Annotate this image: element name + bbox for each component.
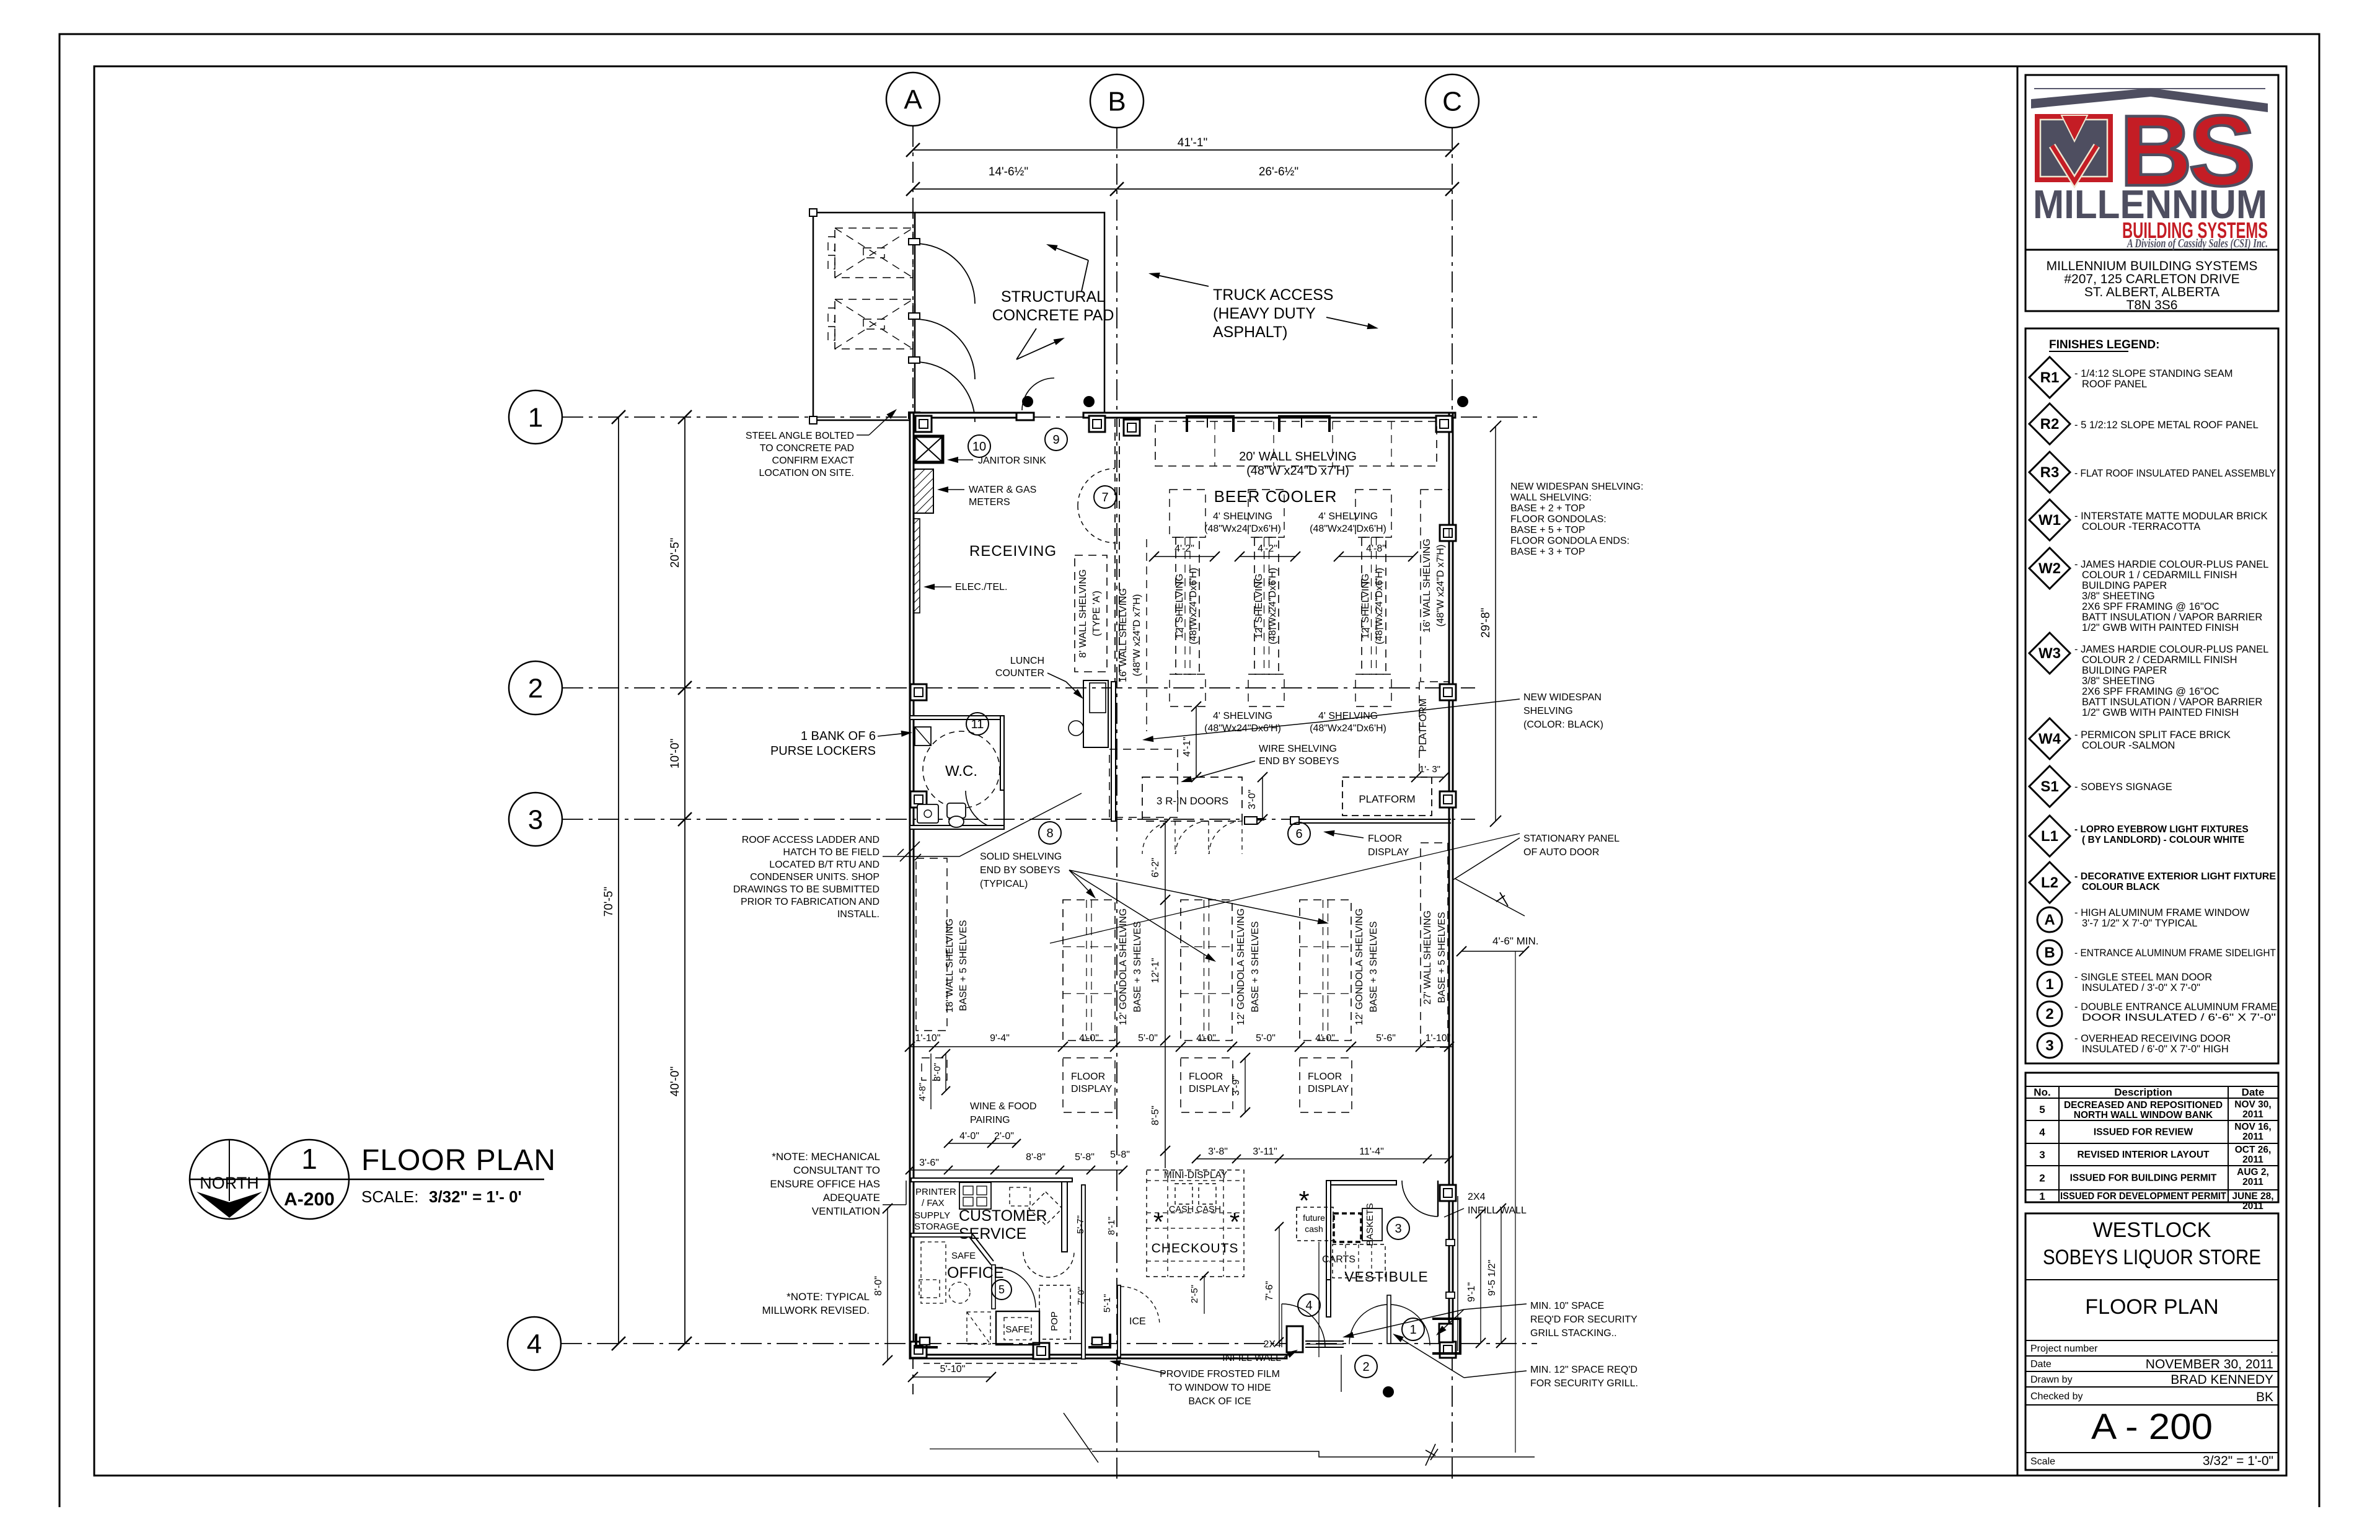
svg-text:Scale: Scale (2030, 1456, 2055, 1467)
svg-text:HATCH TO BE FIELD: HATCH TO BE FIELD (783, 847, 879, 858)
svg-text:3: 3 (1395, 1222, 1401, 1236)
svg-text:10'-0": 10'-0" (669, 739, 682, 768)
wc south wall (910, 825, 1004, 829)
svg-text:7'-6": 7'-6" (1264, 1281, 1275, 1301)
south wall window sill dashed (923, 1363, 1078, 1364)
2x4 bottom leader (1284, 1355, 1288, 1357)
legend symbol A (2037, 907, 2062, 932)
svg-text:NOVEMBER 30, 2011: NOVEMBER 30, 2011 (2146, 1357, 2273, 1371)
platform rectangle (1342, 777, 1432, 816)
grid bubble C (1426, 74, 1479, 128)
svg-text:16' WALL SHELVING: 16' WALL SHELVING (1118, 588, 1129, 682)
legend symbol W3 (2029, 633, 2070, 674)
legend symbol 1 (2037, 972, 2062, 997)
grid line 2 (562, 687, 1475, 689)
svg-text:- LOPRO EYEBROW LIGHT FIXTURES: - LOPRO EYEBROW LIGHT FIXTURES (2074, 824, 2249, 835)
legend symbol R1 (2029, 357, 2070, 398)
svg-text:2: 2 (2039, 1173, 2045, 1184)
legend symbol 3 (2037, 1033, 2062, 1058)
svg-text:Drawn by: Drawn by (2030, 1375, 2073, 1385)
svg-text:20' WALL SHELVING: 20' WALL SHELVING (1239, 450, 1357, 464)
grid bubble B (1090, 74, 1144, 128)
svg-text:TO CONCRETE PAD: TO CONCRETE PAD (760, 443, 854, 454)
svg-text:NOV 16,: NOV 16, (2234, 1122, 2271, 1132)
svg-text:Date: Date (2030, 1359, 2052, 1370)
svg-text:Project number: Project number (2030, 1344, 2098, 1354)
svg-text:INSTALL.: INSTALL. (837, 909, 879, 920)
svg-text:No.: No. (2034, 1086, 2050, 1098)
title block logo box (2025, 75, 2278, 311)
svg-text:PLATFORM: PLATFORM (1359, 793, 1415, 805)
svg-text:2'-5": 2'-5" (1189, 1285, 1200, 1303)
svg-text:ELEC./TEL.: ELEC./TEL. (955, 582, 1007, 592)
svg-text:END BY SOBEYS: END BY SOBEYS (980, 865, 1060, 876)
svg-text:OCT 26,: OCT 26, (2235, 1145, 2272, 1155)
structural concrete pad outline (915, 213, 1104, 415)
svg-text:6: 6 (1295, 827, 1302, 841)
legend symbol W2 (2029, 548, 2070, 589)
cooler gondola 2 (dashed) (1254, 537, 1279, 674)
svg-text:20'-5": 20'-5" (669, 538, 682, 568)
svg-text:*: * (1230, 1207, 1240, 1236)
grid bubble 4 (508, 1317, 561, 1370)
east wall window jamb ticks (1446, 1239, 1455, 1246)
svg-text:FLOOR GONDOLA ENDS:: FLOOR GONDOLA ENDS: (1510, 536, 1629, 547)
svg-text:NEW WIDESPAN: NEW WIDESPAN (1523, 692, 1602, 703)
project title box (2025, 1213, 2278, 1470)
svg-text:8'-0": 8'-0" (873, 1276, 884, 1296)
svg-text:7: 7 (1101, 491, 1108, 504)
logo/address divider (2025, 249, 2278, 251)
svg-text:ROOF PANEL: ROOF PANEL (2082, 379, 2147, 390)
transformer enclosure outline (813, 213, 915, 420)
ice door dashed swing (1121, 1287, 1160, 1326)
floor display leader upper right (1334, 834, 1364, 838)
svg-text:INSULATED / 6'-0" X 7'-0" HIGH: INSULATED / 6'-0" X 7'-0" HIGH (2082, 1044, 2229, 1055)
purse lockers (915, 727, 931, 746)
svg-text:Description: Description (2114, 1086, 2172, 1098)
section cut diagonal (1064, 1413, 1098, 1463)
svg-text:4'-0": 4'-0" (959, 1131, 979, 1142)
pop/ice partition (1082, 1185, 1085, 1359)
svg-text:70'-5": 70'-5" (602, 887, 615, 917)
svg-text:#207, 125 CARLETON DRIVE: #207, 125 CARLETON DRIVE (2064, 272, 2239, 286)
svg-text:2011: 2011 (2242, 1109, 2263, 1120)
dimension 29'-8" (1495, 426, 1496, 821)
vestibule entrance door leaf (1387, 1295, 1391, 1344)
svg-text:NORTH WALL WINDOW BANK: NORTH WALL WINDOW BANK (2074, 1110, 2213, 1120)
svg-text:- ENTRANCE ALUMINUM FRAME SIDE: - ENTRANCE ALUMINUM FRAME SIDELIGHT (2074, 948, 2276, 959)
svg-text:3/32" = 1'- 0': 3/32" = 1'- 0' (429, 1187, 522, 1206)
numbered circle 6 (1288, 822, 1310, 845)
svg-text:T8N 3S6: T8N 3S6 (2127, 298, 2178, 312)
numbered circle 9 (1045, 428, 1067, 451)
cooler south wall (1245, 818, 1264, 821)
svg-text:4'-1": 4'-1" (1182, 737, 1192, 757)
svg-text:2: 2 (2045, 1006, 2053, 1023)
svg-text:SOBEYS LIQUOR STORE: SOBEYS LIQUOR STORE (2043, 1246, 2261, 1269)
svg-text:SCALE:: SCALE: (361, 1187, 419, 1206)
janitor sink (914, 436, 943, 462)
svg-text:(48"Wx24"Dx6'H): (48"Wx24"Dx6'H) (1204, 524, 1281, 534)
svg-text:PROVIDE FROSTED FILM: PROVIDE FROSTED FILM (1160, 1369, 1280, 1379)
svg-text:(48"Wx24"Dx6'H): (48"Wx24"Dx6'H) (1267, 568, 1278, 645)
svg-text:BASE + 3 SHELVES: BASE + 3 SHELVES (1368, 922, 1379, 1013)
svg-text:BK: BK (2256, 1390, 2273, 1404)
svg-text:END BY SOBEYS: END BY SOBEYS (1259, 756, 1339, 767)
18ft wall shelving dashed band (916, 858, 947, 1031)
svg-text:3/32" = 1'-0": 3/32" = 1'-0" (2203, 1454, 2273, 1468)
vestibule north wall (1331, 1181, 1396, 1185)
svg-text:12'-1": 12'-1" (1150, 958, 1161, 983)
svg-text:INFILL WALL: INFILL WALL (1222, 1353, 1281, 1363)
svg-text:CONSULTANT TO: CONSULTANT TO (793, 1164, 880, 1176)
svg-text:3: 3 (2045, 1037, 2053, 1054)
svg-text:FINISHES LEGEND:: FINISHES LEGEND: (2049, 338, 2159, 351)
retail dimension string line (910, 1046, 1453, 1047)
pad door jamb blocks (909, 239, 920, 245)
svg-text:SOLID SHELVING: SOLID SHELVING (980, 851, 1062, 862)
cooler double door swing lower (dashed) (1078, 506, 1115, 543)
svg-text:2011: 2011 (2242, 1155, 2263, 1165)
cooler gondola 3 end shelf bottom (1355, 674, 1391, 706)
svg-text:FLOOR: FLOOR (1308, 1071, 1342, 1082)
svg-text:5: 5 (998, 1283, 1005, 1296)
svg-text:WIRE SHELVING: WIRE SHELVING (1259, 744, 1337, 754)
revision row 1 (2025, 1202, 2278, 1203)
door 1 corner jamb bracket (1432, 1319, 1460, 1353)
svg-text:DECREASED AND REPOSITIONED: DECREASED AND REPOSITIONED (2064, 1100, 2223, 1111)
svg-text:4: 4 (527, 1329, 542, 1359)
svg-text:DOOR INSULATED / 6'-6" X: DOOR INSULATED / 6'-6" X 7'-0" (2082, 1012, 2276, 1023)
cooler gondola 2 end shelf top (1248, 490, 1284, 537)
column grid B north (1124, 420, 1140, 436)
cooler double door swing upper (dashed) (1078, 469, 1115, 506)
svg-text:- JAMES HARDIE COLOUR-PLUS PAN: - JAMES HARDIE COLOUR-PLUS PANEL (2074, 644, 2268, 655)
svg-text:29'-8": 29'-8" (1479, 608, 1492, 638)
pad leader arrow lower (1016, 328, 1036, 359)
truck access leader upper (1160, 276, 1209, 286)
office chair dashed (949, 1282, 970, 1303)
svg-text:8'-5": 8'-5" (1150, 1106, 1161, 1125)
svg-text:3/8" SHEETING: 3/8" SHEETING (2082, 675, 2155, 687)
svg-text:WALL SHELVING:: WALL SHELVING: (1510, 493, 1592, 503)
legend symbol S1 (2029, 766, 2070, 807)
svg-text:NOV 30,: NOV 30, (2234, 1099, 2271, 1110)
long leader diagonal across store (1050, 834, 1520, 943)
svg-text:- INTERSTATE MATTE MODULAR BRI: - INTERSTATE MATTE MODULAR BRICK (2074, 511, 2268, 522)
svg-text:W1: W1 (2038, 512, 2061, 529)
north wall window bank bracket 1 (1187, 416, 1233, 432)
revision table header row (2025, 1086, 2278, 1087)
svg-text:1/2" GWB WITH PAINTED FINISH: 1/2" GWB WITH PAINTED FINISH (2082, 622, 2239, 633)
dim line office upper (948, 1143, 1016, 1144)
elec/tel panel (hatched strip) (914, 519, 920, 613)
south wall window jamb west (916, 1334, 938, 1347)
svg-text:5'-0": 5'-0" (1138, 1033, 1158, 1044)
svg-text:4'-2": 4'-2" (1258, 543, 1277, 554)
svg-text:3: 3 (2039, 1149, 2045, 1161)
customer service counter top (911, 1178, 1072, 1182)
svg-text:CASH: CASH (1196, 1205, 1221, 1215)
counter dashed equipment (1010, 1187, 1030, 1206)
column east wall at grid 2 (1440, 684, 1456, 700)
svg-text:12' GONDOLA SHELVING: 12' GONDOLA SHELVING (1236, 909, 1246, 1026)
grid line 1 (562, 416, 1537, 418)
revision table box (2025, 1073, 2278, 1202)
svg-text:9'-4": 9'-4" (990, 1033, 1010, 1044)
svg-text:11'-4": 11'-4" (1359, 1146, 1384, 1157)
svg-text:2X4: 2X4 (1264, 1339, 1282, 1350)
dimension 8'-0" vertical (887, 1208, 888, 1360)
svg-text:FLOOR: FLOOR (1071, 1071, 1105, 1082)
svg-text:BASKETS: BASKETS (1365, 1203, 1375, 1246)
finishes legend box (2025, 328, 2278, 1063)
column east wall vestibule top (1440, 1185, 1456, 1201)
svg-text:SAFE: SAFE (951, 1251, 976, 1261)
vestibule door 3 swing (1402, 1181, 1438, 1217)
svg-text:ROOF ACCESS LADDER AND: ROOF ACCESS LADDER AND (742, 835, 879, 845)
svg-text:(HEAVY DUTY: (HEAVY DUTY (1213, 305, 1316, 322)
dimension line A-B-C segments (913, 188, 1452, 190)
legend symbol R3 (2029, 452, 2070, 493)
sidewalk line with break marks (1092, 1451, 1535, 1457)
legend symbol B (2037, 940, 2062, 965)
svg-text:STORAGE: STORAGE (914, 1221, 959, 1232)
svg-text:FLOOR: FLOOR (1189, 1071, 1223, 1082)
svg-text:5'-6": 5'-6" (1376, 1033, 1396, 1044)
svg-text:2011: 2011 (2242, 1201, 2263, 1212)
svg-text:CONCRETE PAD: CONCRETE PAD (992, 307, 1114, 324)
lunch counter (1083, 680, 1108, 747)
roof access leader (883, 793, 1082, 856)
svg-text:SHELVING: SHELVING (1523, 706, 1573, 716)
svg-text:MILLENNIUM BUILDING SYSTEMS: MILLENNIUM BUILDING SYSTEMS (2047, 259, 2258, 273)
svg-text:DISPLAY: DISPLAY (1308, 1084, 1349, 1094)
svg-text:(48"W x24"D x7'H): (48"W x24"D x7'H) (1435, 545, 1446, 627)
svg-text:1 BANK OF 6: 1 BANK OF 6 (801, 729, 876, 743)
svg-text:COLOUR 1 / CEDARMILL FINISH: COLOUR 1 / CEDARMILL FINISH (2082, 570, 2237, 581)
grid line A (912, 126, 914, 1394)
numbered circle 5 (992, 1280, 1011, 1300)
svg-text:COLOUR 2 / CEDARMILL FINISH: COLOUR 2 / CEDARMILL FINISH (2082, 654, 2237, 666)
svg-text:LOCATION ON SITE.: LOCATION ON SITE. (759, 468, 855, 478)
svg-text:W3: W3 (2038, 645, 2061, 662)
svg-text:L1: L1 (2041, 828, 2058, 845)
svg-text:R1: R1 (2040, 369, 2060, 386)
svg-text:1: 1 (2045, 976, 2053, 993)
east wall break diagonal (1455, 879, 1525, 916)
stationary panel leader (1453, 838, 1520, 880)
svg-text:9: 9 (1052, 433, 1059, 447)
svg-text:DISPLAY: DISPLAY (1368, 847, 1409, 858)
svg-text:12' GONDOLA SHELVING: 12' GONDOLA SHELVING (1118, 909, 1129, 1026)
svg-text:- DOUBLE ENTRANCE ALUMINUM FRA: - DOUBLE ENTRANCE ALUMINUM FRAME (2074, 1001, 2277, 1013)
solid shelving leader 3 (1069, 870, 1318, 921)
svg-text:FLOOR GONDOLAS:: FLOOR GONDOLAS: (1510, 514, 1606, 525)
min12 leader (1464, 1371, 1527, 1378)
dimension line rows 1-4 segments (684, 417, 685, 1344)
solid shelving leader 1 (1069, 870, 1088, 891)
svg-text:1'-10": 1'-10" (915, 1033, 941, 1044)
retail gondola 1 (dashed) (1063, 900, 1115, 1041)
vestibule door 4 swing (1282, 1304, 1325, 1347)
svg-text:ICE: ICE (1129, 1316, 1146, 1327)
svg-text:C: C (1442, 86, 1462, 117)
svg-text:1: 1 (2039, 1190, 2045, 1202)
svg-text:OF AUTO DOOR: OF AUTO DOOR (1523, 847, 1599, 858)
cooler gondola 1 end shelf bottom (1170, 674, 1205, 706)
svg-text:A - 200: A - 200 (2091, 1407, 2213, 1447)
svg-text:12' SHELVING: 12' SHELVING (1360, 573, 1371, 638)
svg-text:3'-7 1/2" X 7'-0" TYPICAL: 3'-7 1/2" X 7'-0" TYPICAL (2082, 918, 2197, 929)
20ft wall shelving dashed band (1155, 421, 1437, 466)
svg-text:FLOOR PLAN: FLOOR PLAN (2085, 1295, 2218, 1319)
column south-east corner (1440, 1342, 1456, 1358)
dimension 5'-10" (913, 1376, 991, 1378)
north wall centre segment (1083, 413, 1455, 418)
pad door 1 swing (915, 244, 975, 304)
counter gate dashed semicircle (1023, 1252, 1074, 1277)
svg-text:LOCATED B/T RTU AND: LOCATED B/T RTU AND (769, 860, 879, 870)
svg-text:6'-2": 6'-2" (1150, 858, 1161, 878)
svg-text:3'-8": 3'-8" (1208, 1146, 1228, 1157)
svg-text:4'-0": 4'-0" (1315, 1033, 1335, 1044)
svg-text:2011: 2011 (2242, 1177, 2263, 1187)
receiving/retail wall lower (1111, 682, 1116, 821)
counter chair diamond (1029, 1192, 1062, 1225)
numbered circle 11 (966, 713, 989, 735)
svg-text:R2: R2 (2040, 416, 2060, 433)
svg-text:S1: S1 (2040, 778, 2058, 795)
legend symbol L1 (2029, 816, 2070, 856)
svg-text:14'-6½": 14'-6½" (989, 165, 1028, 178)
north wall bollard 2 (1083, 396, 1095, 407)
office door leaf (992, 1265, 995, 1309)
svg-text:W.C.: W.C. (945, 763, 977, 780)
svg-text:PAIRING: PAIRING (970, 1115, 1010, 1125)
svg-text:PURSE LOCKERS: PURSE LOCKERS (770, 744, 876, 758)
svg-text:3'-6": 3'-6" (919, 1158, 939, 1168)
dimension 3'-9" (1245, 1058, 1246, 1112)
pad door 3 swing (915, 362, 975, 422)
checkout dim line (1196, 1158, 1449, 1159)
checkout lanes outer dashed box (1147, 1170, 1244, 1277)
svg-text:4: 4 (2039, 1127, 2045, 1138)
svg-text:27' WALL SHELVING: 27' WALL SHELVING (1422, 910, 1433, 1005)
svg-text:Checked by: Checked by (2030, 1391, 2083, 1402)
svg-text:(48"Wx24"Dx6'H): (48"Wx24"Dx6'H) (1374, 568, 1385, 645)
counter register equipment (959, 1182, 991, 1209)
column east wall upper (1440, 525, 1456, 541)
revision row 4 (2025, 1143, 2278, 1144)
r-in door swing 2 (dashed) (1176, 821, 1209, 854)
wine & food end shelf (dashed) (922, 1058, 947, 1080)
svg-text:4'-2": 4'-2" (1175, 543, 1194, 554)
dimension 4'-8" cooler right (1339, 556, 1413, 557)
north wall door 9 swing (1022, 378, 1054, 410)
svg-text:3'-0": 3'-0" (1247, 790, 1258, 809)
wire shelving dashed box (1109, 749, 1178, 817)
svg-text:WESTLOCK: WESTLOCK (2093, 1218, 2211, 1242)
svg-text:NORTH: NORTH (200, 1174, 259, 1192)
svg-text:ST. ALBERT, ALBERTA: ST. ALBERT, ALBERTA (2084, 285, 2219, 299)
revision row 2 (2025, 1189, 2278, 1190)
dimension 4'-1" (1196, 706, 1197, 777)
entrance jamb blocks left (1287, 1326, 1303, 1352)
svg-text:CUSTOMER: CUSTOMER (959, 1207, 1047, 1225)
svg-text:*: * (1298, 1186, 1309, 1216)
svg-text:TO WINDOW TO HIDE: TO WINDOW TO HIDE (1168, 1383, 1271, 1393)
svg-text:- PERMICON SPLIT FACE BRICK: - PERMICON SPLIT FACE BRICK (2074, 729, 2231, 741)
svg-text:STATIONARY PANEL: STATIONARY PANEL (1523, 834, 1620, 844)
wc toilet (947, 803, 966, 818)
svg-text:- HIGH ALUMINUM FRAME WINDOW: - HIGH ALUMINUM FRAME WINDOW (2074, 907, 2250, 918)
cooler west wall (dashed) (1114, 419, 1116, 682)
svg-text:BASE + 5 SHELVES: BASE + 5 SHELVES (958, 920, 969, 1011)
south wall (west of entry) (910, 1355, 1287, 1358)
lunch counter chair (1069, 721, 1083, 736)
svg-text:2X4: 2X4 (1468, 1192, 1486, 1202)
svg-text:VENTILATION: VENTILATION (812, 1205, 880, 1217)
svg-text:DRAWINGS TO BE SUBMITTED: DRAWINGS TO BE SUBMITTED (733, 884, 879, 895)
svg-text:41'-1": 41'-1" (1178, 136, 1207, 149)
svg-text:12' GONDOLA SHELVING: 12' GONDOLA SHELVING (1354, 909, 1365, 1026)
pad leader arrow upper (1082, 260, 1088, 291)
svg-text:MIN. 10" SPACE: MIN. 10" SPACE (1530, 1301, 1604, 1311)
wc north wall (910, 716, 1004, 719)
svg-text:8: 8 (1046, 827, 1053, 840)
baskets rect (1362, 1208, 1382, 1241)
svg-text:3'-9": 3'-9" (1231, 1076, 1241, 1096)
svg-text:10: 10 (972, 440, 986, 454)
numbered circle 2 (1355, 1355, 1377, 1378)
svg-text:BUILDING PAPER: BUILDING PAPER (2082, 580, 2167, 591)
svg-text:12' SHELVING: 12' SHELVING (1175, 573, 1185, 638)
north wall bollard 1 (1022, 396, 1033, 407)
3 R-IN doors dashed box (1142, 777, 1242, 821)
grid bubble 3 (509, 793, 562, 846)
svg-text:TRUCK ACCESS: TRUCK ACCESS (1213, 286, 1333, 304)
svg-text:3 R-IN DOORS: 3 R-IN DOORS (1157, 795, 1228, 807)
title block column separator (2017, 66, 2019, 1476)
column west wall at grid 2 (910, 684, 927, 700)
svg-text:2X6 SPF FRAMING @ 16"OC: 2X6 SPF FRAMING @ 16"OC (2082, 601, 2219, 612)
svg-text:4'-8": 4'-8" (1366, 543, 1386, 554)
infill wall line below future cash (1318, 1242, 1320, 1357)
grid bubble 2 (509, 661, 562, 715)
dimension 3'-0" wine (945, 1054, 946, 1091)
svg-text:4' SHELVING: 4' SHELVING (1213, 511, 1272, 522)
east leader vertical line (1515, 951, 1516, 1453)
svg-text:BASE + 5 SHELVES: BASE + 5 SHELVES (1437, 912, 1447, 1003)
svg-text:(COLOR: BLACK): (COLOR: BLACK) (1523, 719, 1603, 730)
svg-text:A Division of Cassidy Sales (C: A Division of Cassidy Sales (CSI) Inc. (2127, 237, 2268, 250)
svg-text:W4: W4 (2038, 731, 2061, 747)
office angled counter (969, 1233, 994, 1265)
dimension 1'-3" (1416, 777, 1444, 778)
svg-text:MIN. 12" SPACE REQ'D: MIN. 12" SPACE REQ'D (1530, 1365, 1637, 1375)
svg-text:REVISED INTERIOR LAYOUT: REVISED INTERIOR LAYOUT (2077, 1150, 2210, 1160)
ice room partition (1117, 1285, 1121, 1357)
svg-text:4' SHELVING: 4' SHELVING (1318, 511, 1378, 522)
svg-text:4' SHELVING: 4' SHELVING (1213, 711, 1272, 721)
svg-text:BASE + 3 SHELVES: BASE + 3 SHELVES (1132, 922, 1143, 1013)
svg-text:(48"Wx24"Dx6'H): (48"Wx24"Dx6'H) (1310, 524, 1386, 534)
column south-west corner (910, 1342, 927, 1358)
svg-text:DISPLAY: DISPLAY (1189, 1084, 1230, 1094)
svg-text:NEW WIDESPAN SHELVING:: NEW WIDESPAN SHELVING: (1510, 482, 1644, 492)
